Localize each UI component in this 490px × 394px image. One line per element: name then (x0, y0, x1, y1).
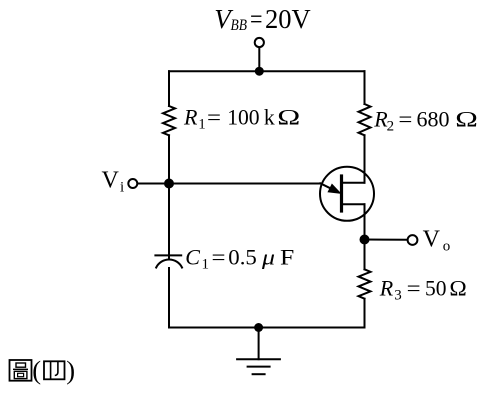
svg-text:100: 100 (227, 105, 259, 130)
svg-text:μ: μ (261, 245, 275, 270)
svg-text:=: = (212, 245, 226, 270)
svg-text:V: V (423, 227, 441, 253)
svg-text:2: 2 (387, 119, 395, 135)
svg-text:3: 3 (394, 288, 402, 304)
svg-text:1: 1 (198, 117, 206, 133)
svg-text:50: 50 (425, 276, 447, 301)
svg-text:Ω: Ω (449, 276, 466, 301)
svg-text:=: = (398, 107, 412, 132)
svg-text:k: k (264, 105, 275, 130)
svg-text:R: R (379, 276, 394, 301)
svg-text:Ω: Ω (455, 107, 478, 132)
svg-text:i: i (120, 180, 124, 196)
svg-text:C: C (185, 245, 200, 270)
svg-text:(: ( (32, 355, 41, 385)
svg-text:1: 1 (202, 257, 210, 273)
svg-text:F: F (280, 245, 294, 270)
svg-text:680: 680 (417, 107, 450, 132)
svg-text:V: V (102, 168, 120, 194)
svg-text:): ) (66, 355, 75, 385)
svg-text:BB: BB (231, 17, 248, 34)
svg-text:R: R (183, 105, 198, 130)
svg-text:0.5: 0.5 (228, 245, 256, 270)
svg-text:o: o (443, 238, 451, 254)
svg-text:=: = (250, 4, 263, 34)
svg-text:20V: 20V (265, 4, 311, 34)
svg-text:Ω: Ω (277, 105, 300, 130)
svg-text:=: = (407, 276, 421, 301)
svg-text:=: = (207, 105, 221, 130)
